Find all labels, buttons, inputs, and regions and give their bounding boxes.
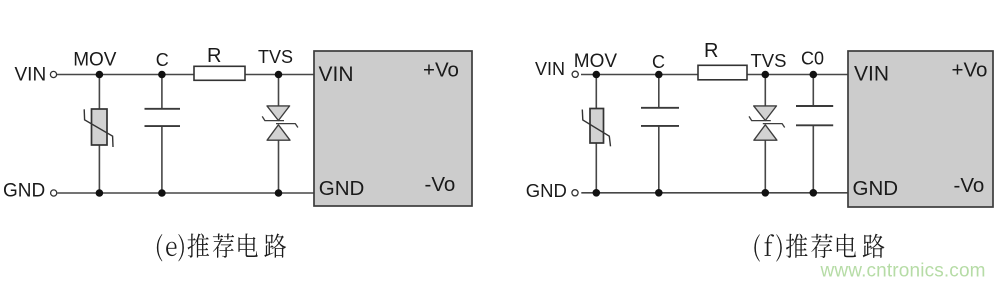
svg-text:C: C (652, 52, 665, 72)
svg-text:GND: GND (319, 177, 365, 200)
svg-text:-Vo: -Vo (954, 174, 985, 197)
svg-text:-Vo: -Vo (425, 173, 456, 196)
svg-text:www.cntronics.com: www.cntronics.com (820, 260, 986, 281)
svg-text:VIN: VIN (854, 62, 889, 85)
svg-text:R: R (207, 45, 221, 67)
svg-text:GND: GND (3, 181, 45, 202)
svg-text:+Vo: +Vo (423, 58, 459, 81)
svg-text:VIN: VIN (319, 63, 354, 86)
svg-text:C: C (156, 50, 169, 70)
svg-text:R: R (704, 40, 718, 62)
svg-text:TVS: TVS (751, 50, 787, 71)
svg-text:TVS: TVS (258, 47, 293, 67)
svg-text:MOV: MOV (574, 51, 618, 72)
svg-text:VIN: VIN (15, 64, 47, 85)
svg-text:VIN: VIN (535, 59, 565, 79)
svg-text:MOV: MOV (73, 49, 117, 70)
svg-text:GND: GND (526, 180, 567, 201)
svg-text:C0: C0 (801, 49, 824, 69)
svg-text:GND: GND (853, 177, 899, 200)
svg-text:+Vo: +Vo (952, 59, 988, 82)
